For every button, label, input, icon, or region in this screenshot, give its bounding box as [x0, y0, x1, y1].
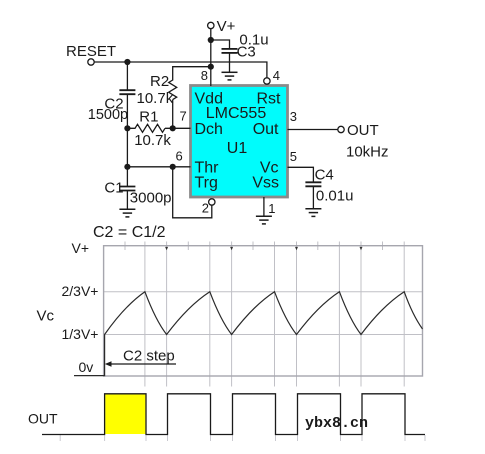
C2 step annotation: [105, 348, 176, 367]
pin 2 terminal circle: [209, 199, 215, 205]
node V+/R2 junction: [208, 64, 214, 70]
Vc waveform: [74, 292, 423, 376]
Vc plot gridlines: [104, 242, 423, 387]
svg-text:LMC555: LMC555: [206, 105, 267, 122]
svg-text:R2: R2: [150, 73, 169, 90]
wire RESET node down to C2: [126, 62, 128, 91]
svg-text:ybx8.cn: ybx8.cn: [305, 415, 368, 432]
svg-text:V+: V+: [217, 18, 236, 35]
svg-text:OUT: OUT: [28, 410, 58, 426]
svg-text:1/3V+: 1/3V+: [62, 326, 99, 342]
wire Thr node to Trg pin 2: [173, 167, 212, 218]
wire Vss pin 1 to ground: [263, 197, 265, 216]
svg-text:3: 3: [290, 109, 297, 124]
svg-text:1500p: 1500p: [88, 107, 128, 123]
svg-text:R1: R1: [139, 108, 158, 125]
node R1/R2/Dch junction: [170, 125, 176, 131]
wire C1 to ground: [126, 191, 128, 210]
wire C2 bottom to R1 node: [126, 95, 128, 129]
svg-text:6: 6: [176, 148, 183, 163]
svg-text:Out: Out: [253, 121, 279, 138]
RESET terminal: [66, 43, 116, 65]
svg-text:C4: C4: [315, 167, 334, 184]
wire C4 to ground: [312, 187, 314, 209]
svg-text:C2 step: C2 step: [123, 348, 175, 365]
node Thr/Trg junction: [170, 164, 176, 170]
Vc plot top edge ticks: [125, 242, 383, 251]
wire Thr node down to C1: [126, 167, 128, 187]
svg-text:C2 = C1/2: C2 = C1/2: [93, 224, 166, 241]
wire to Thr pin 6: [127, 166, 190, 168]
wire R2 bottom to Dch node: [172, 100, 174, 129]
timer IC U1: [191, 86, 288, 198]
svg-text:4: 4: [273, 68, 280, 83]
svg-text:3000p: 3000p: [130, 189, 172, 206]
wire R2 top to V+ rail: [173, 67, 211, 81]
node V+/C3 junction: [208, 37, 214, 43]
node C1/Thr junction: [124, 164, 130, 170]
wire to capacitor C3: [211, 40, 230, 50]
svg-text:7: 7: [180, 108, 187, 123]
wire Out pin 3 to OUT terminal: [288, 129, 339, 131]
svg-text:U1: U1: [227, 140, 248, 157]
svg-text:1: 1: [268, 201, 275, 216]
ground below C4: [305, 209, 321, 217]
svg-text:0v: 0v: [79, 359, 94, 375]
yellow highlight first pulse: [105, 394, 145, 434]
node C2/R1 junction: [124, 125, 130, 131]
wire down to Thr node: [126, 128, 128, 167]
ground below C3: [222, 72, 238, 80]
svg-text:Vss: Vss: [252, 175, 279, 192]
wire C3 to ground: [229, 54, 231, 73]
svg-text:RESET: RESET: [66, 43, 116, 60]
wire Vc pin 5 to C4: [288, 167, 314, 183]
svg-text:V+: V+: [72, 240, 90, 256]
svg-text:C3: C3: [237, 43, 256, 60]
ground below pin 1: [256, 216, 272, 224]
svg-text:Vc: Vc: [37, 307, 55, 324]
svg-text:Dch: Dch: [195, 121, 223, 138]
resistor R2: [137, 73, 177, 107]
svg-text:5: 5: [290, 149, 297, 164]
V+ terminal: [208, 18, 236, 35]
capacitor C1: [104, 179, 171, 206]
svg-text:2/3V+: 2/3V+: [62, 283, 99, 299]
wire V+ down to Vdd pin 8: [210, 29, 212, 87]
pin 4 terminal circle: [264, 78, 270, 84]
resistor R1: [127, 108, 171, 149]
svg-text:10kHz: 10kHz: [346, 144, 389, 161]
svg-text:2: 2: [202, 200, 209, 215]
node RESET/C2 junction: [124, 59, 130, 65]
svg-text:8: 8: [201, 68, 208, 83]
capacitor C2: [88, 90, 136, 123]
Vc plot frame: [104, 246, 423, 376]
svg-text:OUT: OUT: [347, 122, 379, 139]
svg-text:C1: C1: [104, 179, 123, 196]
OUT row ticks: [60, 435, 425, 441]
capacitor C3: [222, 31, 269, 60]
svg-text:Trg: Trg: [195, 175, 218, 192]
svg-text:10.7k: 10.7k: [137, 90, 174, 107]
OUT waveform: [42, 394, 425, 435]
wire RESET to Rst pin 4: [94, 62, 267, 78]
ground below C1: [119, 209, 135, 217]
OUT terminal: [338, 122, 389, 161]
svg-text:0.01u: 0.01u: [316, 188, 354, 205]
wire to Dch pin 7: [165, 127, 191, 129]
svg-text:10.7k: 10.7k: [134, 132, 171, 149]
trigger marks at troughs: [165, 247, 362, 250]
capacitor C4: [305, 167, 353, 205]
